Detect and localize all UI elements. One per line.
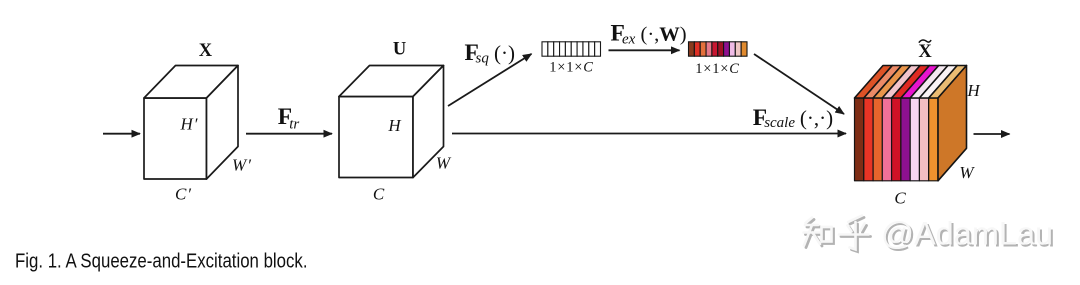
watermark zhihu glyphs (gray layer) <box>806 218 871 252</box>
F_ex arrow <box>609 49 680 51</box>
svg-text:H′: H′ <box>180 115 199 134</box>
svg-text:W: W <box>959 163 975 182</box>
output arrow <box>974 133 1010 135</box>
svg-text:(·,·): (·,·) <box>800 106 833 130</box>
F_sq diagonal arrow <box>448 54 532 106</box>
svg-text:H: H <box>387 116 402 135</box>
diagonal arrow from excitation vector to X-tilde cube <box>754 54 844 114</box>
tensor U cube: right face <box>413 66 444 178</box>
svg-text:@AdamLau: @AdamLau <box>881 216 1053 252</box>
input arrow <box>103 133 140 135</box>
squeeze output vector 1x1xC (white cells) <box>542 42 601 56</box>
F_tr arrow <box>246 133 332 135</box>
svg-text:X: X <box>918 42 932 62</box>
svg-text:1×1×C: 1×1×C <box>695 61 740 77</box>
svg-text:W′: W′ <box>232 156 252 175</box>
watermark zhihu glyphs (white emboss layer) <box>804 216 869 250</box>
svg-text:C′: C′ <box>175 185 192 204</box>
tensor X cube: top face <box>144 66 238 99</box>
svg-text:sq: sq <box>476 51 490 67</box>
svg-text:W: W <box>436 154 452 173</box>
svg-text:(·,W): (·,W) <box>641 24 687 46</box>
tensor X cube: front face <box>144 98 207 179</box>
tensor U cube: top face <box>339 66 444 97</box>
excitation output vector 1x1xC (colored cells) <box>689 42 748 56</box>
svg-text:ex: ex <box>622 32 636 48</box>
tensor X cube: right face <box>207 66 239 180</box>
svg-text:scale: scale <box>764 115 795 131</box>
tensor U cube: front face <box>339 97 413 178</box>
svg-text:U: U <box>393 40 406 60</box>
colored tensor X-tilde cube: front face slices <box>855 98 938 181</box>
svg-text:tr: tr <box>289 117 299 133</box>
svg-text:C: C <box>373 185 385 204</box>
svg-text:1×1×C: 1×1×C <box>549 59 594 75</box>
svg-text:H: H <box>966 81 981 100</box>
svg-text:C: C <box>894 189 906 208</box>
svg-text:Fig. 1. A Squeeze-and-Excitati: Fig. 1. A Squeeze-and-Excitation block. <box>15 250 308 272</box>
svg-text:X: X <box>199 41 213 61</box>
F_scale long arrow <box>452 133 846 135</box>
svg-text:(·): (·) <box>494 41 515 65</box>
colored tensor X-tilde cube: top face stripes <box>855 66 967 99</box>
colored tensor X-tilde cube: orange right face <box>938 66 967 181</box>
